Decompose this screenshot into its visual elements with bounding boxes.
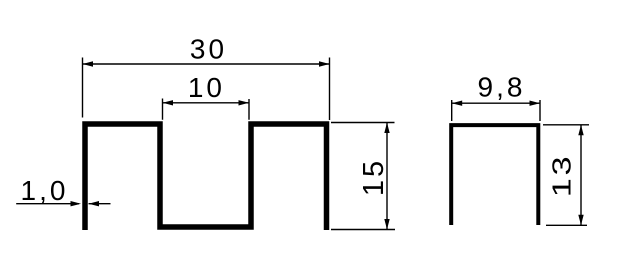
svg-text:1,0: 1,0 bbox=[21, 175, 69, 206]
svg-text:10: 10 bbox=[188, 72, 225, 103]
svg-text:9,8: 9,8 bbox=[478, 71, 526, 102]
svg-text:13: 13 bbox=[547, 154, 576, 197]
svg-text:30: 30 bbox=[190, 34, 227, 65]
svg-text:15: 15 bbox=[358, 158, 390, 196]
